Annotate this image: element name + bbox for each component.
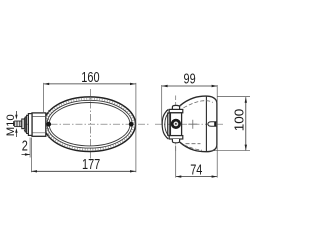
- bracket body: [170, 113, 181, 136]
- svg-text:160: 160: [81, 68, 99, 85]
- grommet dark tip: [214, 122, 217, 126]
- dim 177 ext left: [30, 138, 32, 173]
- lens arc outer: [162, 110, 168, 139]
- dim 74 ext left: [175, 146, 177, 178]
- svg-text:177: 177: [82, 155, 100, 172]
- clamp ring edge: [168, 112, 170, 137]
- dim 160 ext left: [43, 83, 45, 114]
- screw left: [46, 122, 51, 127]
- hidden edge dashed top-left: [166, 106, 182, 111]
- screw right: [129, 122, 134, 127]
- boss step lines: [32, 117, 46, 133]
- mounting boss body: [32, 113, 46, 136]
- bracket top flange: [169, 109, 183, 112]
- dim 74 line: [176, 176, 218, 178]
- svg-text:99: 99: [184, 70, 196, 87]
- bracket top cap: [172, 105, 179, 109]
- dim 99 ext left: [161, 85, 163, 125]
- centerline vertical front view: [89, 89, 91, 161]
- oval rim outer ellipse: [44, 97, 136, 152]
- dim M10 arrows: [15, 111, 17, 118]
- hidden edge dashed top: [184, 101, 213, 108]
- svg-text:M10: M10: [5, 114, 17, 136]
- centerline horizontal side view: [155, 123, 223, 125]
- housing dome outline: [180, 96, 217, 152]
- hidden edge dashed bottom: [186, 143, 201, 145]
- hidden edge dashed bottom arc: [184, 145, 202, 150]
- dim 100 ext top: [217, 96, 250, 98]
- bolt cone: [24, 115, 28, 133]
- bracket bottom flange: [169, 136, 183, 139]
- dim 99/74 ext right: [216, 85, 218, 178]
- dim 160 ext right / 177 ext right: [135, 83, 137, 172]
- svg-text:2: 2: [22, 137, 28, 154]
- svg-text:100: 100: [232, 109, 246, 132]
- dim 100 ext bottom: [211, 150, 251, 152]
- collar plate: [28, 114, 32, 136]
- centerline vertical boss axis: [175, 96, 177, 154]
- rim hatch band: [45, 99, 133, 150]
- centerline horizontal front view: [13, 123, 150, 125]
- dim 2 leader: [22, 154, 30, 156]
- dim 100 line: [245, 97, 247, 150]
- dim 99 line: [162, 85, 217, 87]
- bolt washer: [22, 119, 25, 129]
- center cross: [188, 120, 197, 129]
- housing back seam: [205, 97, 207, 152]
- thread ticks: [16, 121, 21, 127]
- dim 177 line: [31, 170, 135, 172]
- lens arc inner: [165, 112, 170, 137]
- rim inner edge ellipse: [47, 100, 132, 148]
- bracket bottom cap: [172, 139, 179, 143]
- cable grommet: [208, 122, 217, 127]
- lens edge ellipse: [49, 103, 130, 146]
- bolt thread M10: [15, 121, 22, 127]
- dim 2 ext: [29, 138, 31, 158]
- svg-text:74: 74: [190, 161, 202, 178]
- boss end ring dark: [171, 119, 181, 129]
- dim 160 line: [44, 83, 136, 85]
- screw centerline left: [48, 110, 50, 139]
